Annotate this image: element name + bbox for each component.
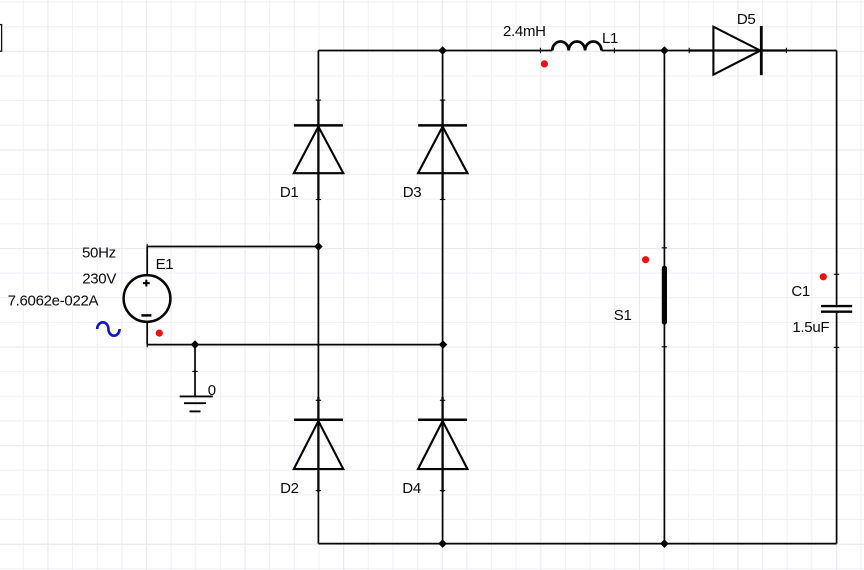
svg-text:1.5uF: 1.5uF: [792, 319, 829, 336]
svg-text:D3: D3: [403, 184, 422, 201]
svg-text:D5: D5: [737, 11, 756, 28]
svg-text:D2: D2: [280, 480, 299, 497]
svg-text:C1: C1: [791, 283, 810, 300]
svg-text:0: 0: [208, 382, 216, 399]
svg-text:7.6062e-022A: 7.6062e-022A: [8, 293, 99, 310]
svg-text:50Hz: 50Hz: [82, 245, 116, 262]
svg-text:2.4mH: 2.4mH: [503, 23, 546, 40]
svg-text:L1: L1: [602, 30, 618, 47]
svg-text:E1: E1: [156, 256, 174, 273]
svg-text:230V: 230V: [82, 270, 116, 287]
svg-text:D4: D4: [402, 480, 421, 497]
svg-text:D1: D1: [280, 184, 299, 201]
svg-text:S1: S1: [614, 307, 632, 324]
